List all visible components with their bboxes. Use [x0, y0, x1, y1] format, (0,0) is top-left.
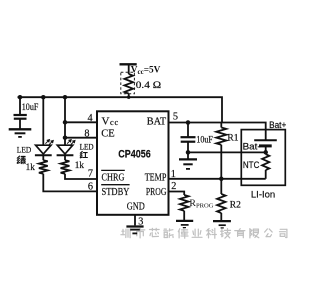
svg-text:0.4 Ω: 0.4 Ω [136, 81, 161, 91]
label hanzi green [17, 156, 19, 158]
node dot rail left end [18, 95, 23, 100]
svg-text:R1: R1 [227, 133, 238, 143]
wire C2 to ground [187, 142, 189, 160]
node dot BAT cap tap [186, 120, 191, 125]
LED green cathode bar [35, 154, 52, 156]
watermark text [121, 228, 287, 238]
svg-text:LI-Ion: LI-Ion [251, 189, 275, 199]
LED green light arrows [45, 140, 53, 145]
wire R green to pin6 [43, 174, 97, 192]
wire resistor to rail [128, 94, 130, 98]
wire BAT line [169, 123, 266, 140]
battery box LI-Ion [241, 130, 285, 186]
svg-text:10uF: 10uF [22, 102, 39, 112]
capacitor C2 10uF plates [181, 136, 196, 138]
wire rail to C1 [19, 97, 21, 115]
svg-text:CHRG: CHRG [102, 173, 125, 184]
svg-text:TEMP: TEMP [145, 173, 167, 184]
wire rail to red LED [64, 97, 66, 145]
svg-text:5: 5 [173, 111, 178, 122]
ground Rprog [176, 220, 193, 222]
svg-text:2: 2 [171, 181, 176, 192]
svg-text:CE: CE [101, 128, 114, 139]
thermistor NTC zigzag [262, 154, 269, 170]
svg-text:NTC: NTC [243, 160, 260, 170]
capacitor C1 10uF plates [14, 114, 27, 116]
wire R2 to ground [220, 213, 222, 220]
power rail Vcc bar [120, 63, 137, 65]
svg-text:Bat-: Bat- [243, 141, 261, 151]
svg-text:4: 4 [88, 113, 93, 124]
ground R2 [213, 220, 231, 222]
wire LED to R red [64, 155, 66, 160]
wire R red to pin7 [65, 174, 98, 179]
dashed box around 0.4 ohm resistor [121, 72, 135, 94]
LED red light arrows [67, 140, 75, 145]
LED red D2 triangle [57, 145, 72, 154]
svg-text:1k: 1k [26, 162, 36, 172]
svg-text:Vcc=5V: Vcc=5V [131, 66, 161, 76]
wire GND pin 3 [134, 215, 136, 226]
wire TEMP line [169, 178, 266, 180]
ground chip GND [126, 225, 143, 227]
svg-text:1k: 1k [75, 160, 85, 170]
node dot rail red LED [63, 95, 68, 100]
svg-text:LED: LED [17, 144, 32, 154]
node dot rail green LED [41, 95, 46, 100]
svg-text:8: 8 [84, 128, 89, 139]
wire BAT to R1 [220, 123, 222, 128]
junction dot resistor-rail [127, 96, 130, 99]
svg-text:7: 7 [88, 169, 93, 180]
LED red cathode bar [57, 154, 74, 156]
wire PROG to Rprog [169, 192, 185, 196]
wire main top rail [18, 97, 223, 122]
wire power bar to resistor [128, 64, 130, 74]
node dot battery minus [263, 150, 268, 155]
wire pin 4 Vcc [65, 121, 98, 123]
resistor 1k green zigzag [39, 160, 48, 174]
resistor R2 zigzag [217, 194, 225, 213]
wire C1 to ground [19, 119, 21, 130]
wire BAT to C2 [187, 123, 189, 138]
label hanzi red [80, 151, 82, 153]
svg-text:LED: LED [80, 142, 94, 152]
resistor R1 zigzag [216, 128, 226, 145]
svg-text:STDBY: STDBY [102, 187, 130, 198]
node dot Bat- gnd line [186, 150, 191, 155]
ground mid [179, 158, 197, 160]
battery cell plus plate [254, 139, 277, 141]
svg-text:PROG: PROG [146, 187, 167, 198]
wire NTC to TEMP line [265, 170, 267, 179]
wire LED to R green [42, 155, 44, 160]
node dot pin4 tap [63, 120, 68, 125]
svg-text:GND: GND [127, 202, 145, 213]
ground left [9, 128, 32, 130]
wire TEMP to R2 [220, 179, 222, 194]
resistor 1k red zigzag [61, 160, 70, 174]
resistor 0.4 ohm zigzag [124, 74, 133, 94]
op-amp U1 CP4056 body [97, 111, 169, 215]
svg-text:Vcc: Vcc [102, 116, 120, 128]
node dot pin8 tap [63, 135, 68, 140]
wire rail to green LED [42, 97, 44, 145]
wire Bat- to ground [188, 151, 266, 153]
wire R1 to TEMP line [220, 145, 222, 179]
wire minus plate to node [265, 146, 267, 154]
wire Rprog to ground [183, 211, 185, 220]
svg-text:6: 6 [88, 182, 93, 193]
svg-text:BAT: BAT [147, 117, 167, 128]
node dot R1 R2 junction [219, 177, 224, 182]
LED green D1 triangle [36, 145, 51, 154]
wire pin 8 CE [65, 137, 98, 139]
svg-text:10uF: 10uF [196, 135, 213, 145]
svg-text:R2: R2 [230, 201, 241, 211]
resistor Rprog zigzag [180, 195, 189, 211]
svg-text:CP4056: CP4056 [118, 149, 151, 161]
svg-text:Bat+: Bat+ [269, 120, 286, 130]
battery cell minus plate [259, 144, 272, 147]
